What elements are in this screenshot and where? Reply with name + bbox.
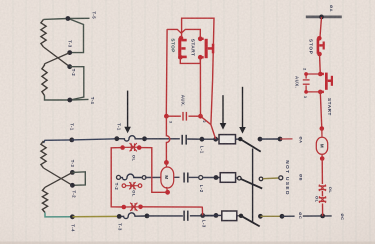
node row1 line end: [278, 137, 283, 142]
node row1 control tap: [213, 137, 218, 142]
wire row2 line side (olive): [263, 177, 279, 180]
node 3 terminal (aux left): [164, 114, 169, 119]
breaker S-curve row2: [120, 174, 142, 180]
wire START bottom to node 2: [199, 60, 201, 116]
node 2 terminal (aux right): [198, 114, 203, 119]
wire T-1 lead (group2 top): [44, 140, 72, 143]
wire row3 to contact: [147, 215, 183, 217]
node OL3 right: [138, 205, 143, 210]
node L-3: [200, 213, 205, 218]
node before box row2: [214, 175, 219, 180]
heater box row3: [222, 211, 237, 221]
node coil bottom (ladder): [320, 156, 325, 161]
wire station top rail: [182, 18, 216, 139]
coil M (wiring diagram): [165, 163, 167, 169]
node row3 mid: [280, 214, 285, 219]
wire row2 to contact: [145, 176, 180, 178]
contact AUX (station): [166, 112, 200, 121]
switch blade row3: [241, 216, 260, 227]
pushbutton STOP (station): [178, 36, 187, 60]
wire STOP-START bottom bridge: [180, 57, 200, 63]
overload OL lower (ladder): [319, 196, 327, 202]
terminal circle row2 not used: [279, 176, 283, 180]
wire winding A bottom diagonal to node T-2: [44, 47, 70, 67]
heater box row1: [219, 135, 236, 144]
node OL1 right: [137, 145, 142, 150]
wire row1 contact to L-1 node: [187, 138, 202, 140]
node T-4 junction group1: [67, 98, 72, 103]
wire node 3 to coil M (ladder): [320, 92, 322, 128]
terminal circle blade pivot row2: [238, 176, 242, 180]
wire winding C bottom diagonal to node T-2 (group2): [44, 168, 73, 185]
wire box row3 to blade pivot: [237, 215, 241, 217]
node T-4 lead row3: [70, 214, 75, 219]
overload OL upper (ladder): [319, 185, 327, 191]
terminal circle row2 line side: [259, 177, 263, 181]
node control return junction row3: [320, 214, 325, 219]
terminal circle T-2 row2: [117, 175, 121, 179]
pushbutton STOP (ladder): [317, 36, 325, 56]
wire row3 contact to L-3 node: [190, 215, 216, 217]
contact AUX (ladder) with branch: [306, 74, 320, 92]
wire station left vertical (node 3): [165, 29, 168, 116]
wire bracket node T-2 down to T-4 node: [70, 67, 84, 100]
power rail phase A (ladder): [306, 16, 342, 19]
wire box row1 to blade pivot: [236, 138, 241, 140]
node coil M bottom: [165, 190, 170, 195]
breaker S-curve row1: [119, 136, 142, 141]
node blade pivot row1: [238, 137, 242, 141]
wire row1 line side: [260, 138, 280, 140]
wire row2 contact to L-2 circle: [189, 176, 199, 178]
switch blade row1: [240, 139, 260, 152]
node row3 line side: [258, 214, 263, 219]
node T-2 (group1): [67, 64, 72, 69]
wire T5 lead (group1 top): [44, 18, 90, 19]
arrow at breaker row1: [124, 91, 131, 134]
wire winding B bottom to T-4 lead: [45, 96, 89, 101]
wire row3 line side (olive): [260, 215, 282, 217]
overload heater OL2 (unused, open): [126, 185, 138, 187]
node 2 (ladder): [318, 72, 323, 77]
wire diagonal node T-3 to winding D top: [45, 172, 72, 187]
node T-3 (group1): [67, 50, 72, 55]
terminal circle L-2: [199, 176, 203, 180]
breaker S-curve row3: [121, 213, 145, 219]
pushbutton START (ladder): [320, 73, 333, 94]
node row3 after breaker: [145, 214, 150, 219]
wire row1 with hop over red control wire: [145, 138, 180, 140]
node blade pivot row3: [239, 214, 243, 218]
wire STOP to node 2 (ladder): [319, 54, 322, 74]
node T-3 terminal row3: [117, 214, 122, 219]
wire diagonal node T-3 to winding B top: [45, 53, 70, 64]
node row1 line side: [258, 137, 263, 142]
wire OL3 to L-3 node: [141, 207, 203, 216]
wire coil return to OL1: [139, 148, 167, 193]
arrow at blade pivot row1: [239, 87, 246, 134]
arrow at heater box row1: [220, 95, 227, 129]
wire between OLs (ladder): [321, 191, 323, 196]
wire L-2 to box row2: [203, 177, 221, 179]
node T-2 (group2): [70, 183, 75, 188]
wire winding D bottom to T-4 (teal): [45, 213, 72, 217]
resistor winding B (T2..T4): [42, 64, 47, 96]
wire L-1 node to heater box row1: [202, 138, 219, 140]
pushbutton START (station): [198, 36, 214, 59]
coil M (ladder): [321, 129, 323, 138]
wire bracket from T5 node down to node T-3: [68, 18, 84, 52]
node coil top (ladder): [320, 126, 325, 131]
wire row3 T-4 to T-3 (olive): [72, 215, 119, 217]
node row3 before box: [214, 213, 219, 218]
wire node 2 to line tap (diagonal): [201, 116, 211, 124]
heater box row2: [220, 173, 235, 183]
contact M row2 (bar pair): [184, 173, 188, 183]
wire OL to line row3 (ladder): [322, 204, 324, 216]
wire station cross header with hop: [167, 29, 200, 38]
contact M row1 (bar pair): [182, 135, 186, 145]
node ladder rail tap: [319, 15, 324, 20]
switch blade row2: [241, 179, 262, 189]
node top junction group1: [66, 16, 71, 21]
overload heater OL3: [124, 206, 141, 208]
node T-1 (group2): [69, 138, 74, 143]
switch linkage bar: [252, 149, 254, 223]
faint bottom edge: [0, 242, 375, 244]
wire node 3 down to coil M: [166, 116, 169, 162]
node row1 T-1 terminal: [114, 136, 119, 141]
wire bracket T-3 to T-2 (group2): [72, 172, 85, 186]
wire box row2 to blade: [236, 177, 238, 179]
node 3 (ladder): [318, 90, 323, 95]
terminal circle row2 after breaker: [142, 176, 146, 180]
resistor winding D (..T4): [42, 187, 47, 212]
node T-3 (group2): [70, 170, 75, 175]
node OL3 left: [122, 205, 127, 210]
node row1 after breaker: [142, 136, 147, 141]
node coil M top: [164, 160, 169, 165]
node L-1: [200, 137, 205, 142]
wire row3 to control return junction: [282, 215, 332, 217]
wire rail to STOP: [320, 17, 322, 37]
contact M row3 (bar pair): [184, 211, 188, 221]
wire L-3 to box row3: [203, 214, 222, 216]
wire OL left rail: [111, 148, 124, 207]
wire coil to OL (ladder): [321, 159, 323, 185]
resistor winding C (T1..): [41, 141, 46, 168]
overload heater OL1: [123, 146, 140, 148]
resistor winding A (T5..T3): [41, 19, 46, 47]
wire red stub to phase A: [280, 138, 293, 140]
node OL1 left: [120, 145, 125, 150]
wire row1 T-1 to starter: [72, 139, 117, 140]
